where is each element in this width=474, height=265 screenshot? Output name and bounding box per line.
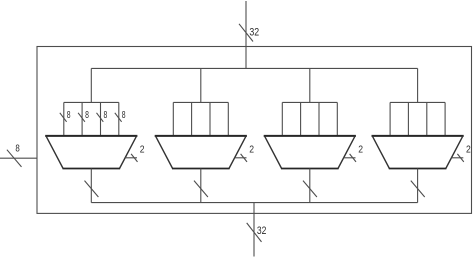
wire: 32-bit data output (bottom) xyxy=(253,203,255,257)
wire: mux U2 output xyxy=(200,169,202,203)
wire: mux U3 select input xyxy=(344,157,356,159)
bus-width slash on U4 output xyxy=(411,181,425,197)
wire: bus feed to mux U4 xyxy=(417,68,419,102)
bus-width slash on U2 select xyxy=(241,154,247,162)
bus-width slash on 32-bit input xyxy=(239,24,253,42)
wire: mux U1 input 3 xyxy=(118,102,120,135)
wire: 8-bit input (left) xyxy=(0,157,37,159)
svg-text:32: 32 xyxy=(249,26,259,38)
svg-text:8: 8 xyxy=(67,109,71,121)
wire: mux U3 input connector xyxy=(282,101,337,103)
svg-text:2: 2 xyxy=(466,144,471,156)
wire: mux U3 input 0 xyxy=(281,102,283,135)
multiplexer U4 xyxy=(372,136,464,169)
wire: mux U1 output xyxy=(90,169,92,203)
wire: bus feed to mux U3 xyxy=(309,68,311,102)
bus-width slash on U3 output xyxy=(303,181,317,197)
wire: mux U3 output xyxy=(309,169,311,203)
bus-width slash on 8-bit input xyxy=(7,150,22,167)
svg-text:2: 2 xyxy=(249,144,254,156)
wire: mux U2 input connector xyxy=(173,101,228,103)
svg-text:32: 32 xyxy=(257,225,267,237)
multiplexer U3 xyxy=(264,136,356,169)
svg-text:2: 2 xyxy=(358,144,363,156)
bus-width slash on 32-bit output xyxy=(247,223,262,242)
wire: mux U2 select input xyxy=(235,157,247,159)
wire: output collection bus xyxy=(91,202,417,204)
wire: mux U4 output xyxy=(417,169,419,203)
wire: 32-bit data input (top) xyxy=(245,1,247,68)
wire: mux U1 select input xyxy=(125,157,137,159)
wire: mux U2 input 0 xyxy=(172,102,174,135)
wire: mux U2 input 3 xyxy=(227,102,229,135)
wire: mux U4 input 3 xyxy=(444,102,446,135)
wire: mux U4 input 1 xyxy=(407,102,409,135)
wire: mux U1 input 2 xyxy=(100,102,102,135)
bus-width slash on U3 select xyxy=(350,154,356,162)
wire: mux U3 input 1 xyxy=(300,102,302,135)
bus-width slash on U1 input 1 xyxy=(78,113,85,122)
wire: mux U4 input connector xyxy=(390,101,445,103)
svg-text:8: 8 xyxy=(104,109,108,121)
multiplexer U2 xyxy=(155,136,247,169)
wire: mux U4 input 2 xyxy=(426,102,428,135)
wire: mux U2 input 2 xyxy=(209,102,211,135)
svg-text:8: 8 xyxy=(15,143,20,155)
multiplexer U1 xyxy=(45,136,137,169)
wire: bus feed to mux U2 xyxy=(200,68,202,102)
svg-text:8: 8 xyxy=(122,109,126,121)
bus-width slash on U1 input 0 xyxy=(60,113,67,122)
wire: mux U2 input 1 xyxy=(191,102,193,135)
wire: mux U1 input 1 xyxy=(81,102,83,135)
wire: mux U1 input connector xyxy=(64,101,119,103)
svg-text:8: 8 xyxy=(85,109,89,121)
module boundary box xyxy=(37,47,472,214)
svg-text:2: 2 xyxy=(140,144,145,156)
bus-width slash on U1 select xyxy=(131,154,137,162)
wire: mux U4 input 0 xyxy=(389,102,391,135)
bus-width slash on U2 output xyxy=(194,181,208,197)
wire: mux U3 input 2 xyxy=(318,102,320,135)
wire: mux U1 input 0 xyxy=(63,102,65,135)
wire: mux U4 select input xyxy=(451,157,463,159)
bus-width slash on U1 input 3 xyxy=(115,113,122,122)
bus-width slash on U1 output xyxy=(85,181,99,197)
wire: mux U3 input 3 xyxy=(336,102,338,135)
wire: bus feed to mux U1 xyxy=(90,68,92,102)
wire: input distribution bus xyxy=(91,67,417,69)
bus-width slash on U4 select xyxy=(457,154,463,162)
bus-width slash on U1 input 2 xyxy=(97,113,104,122)
